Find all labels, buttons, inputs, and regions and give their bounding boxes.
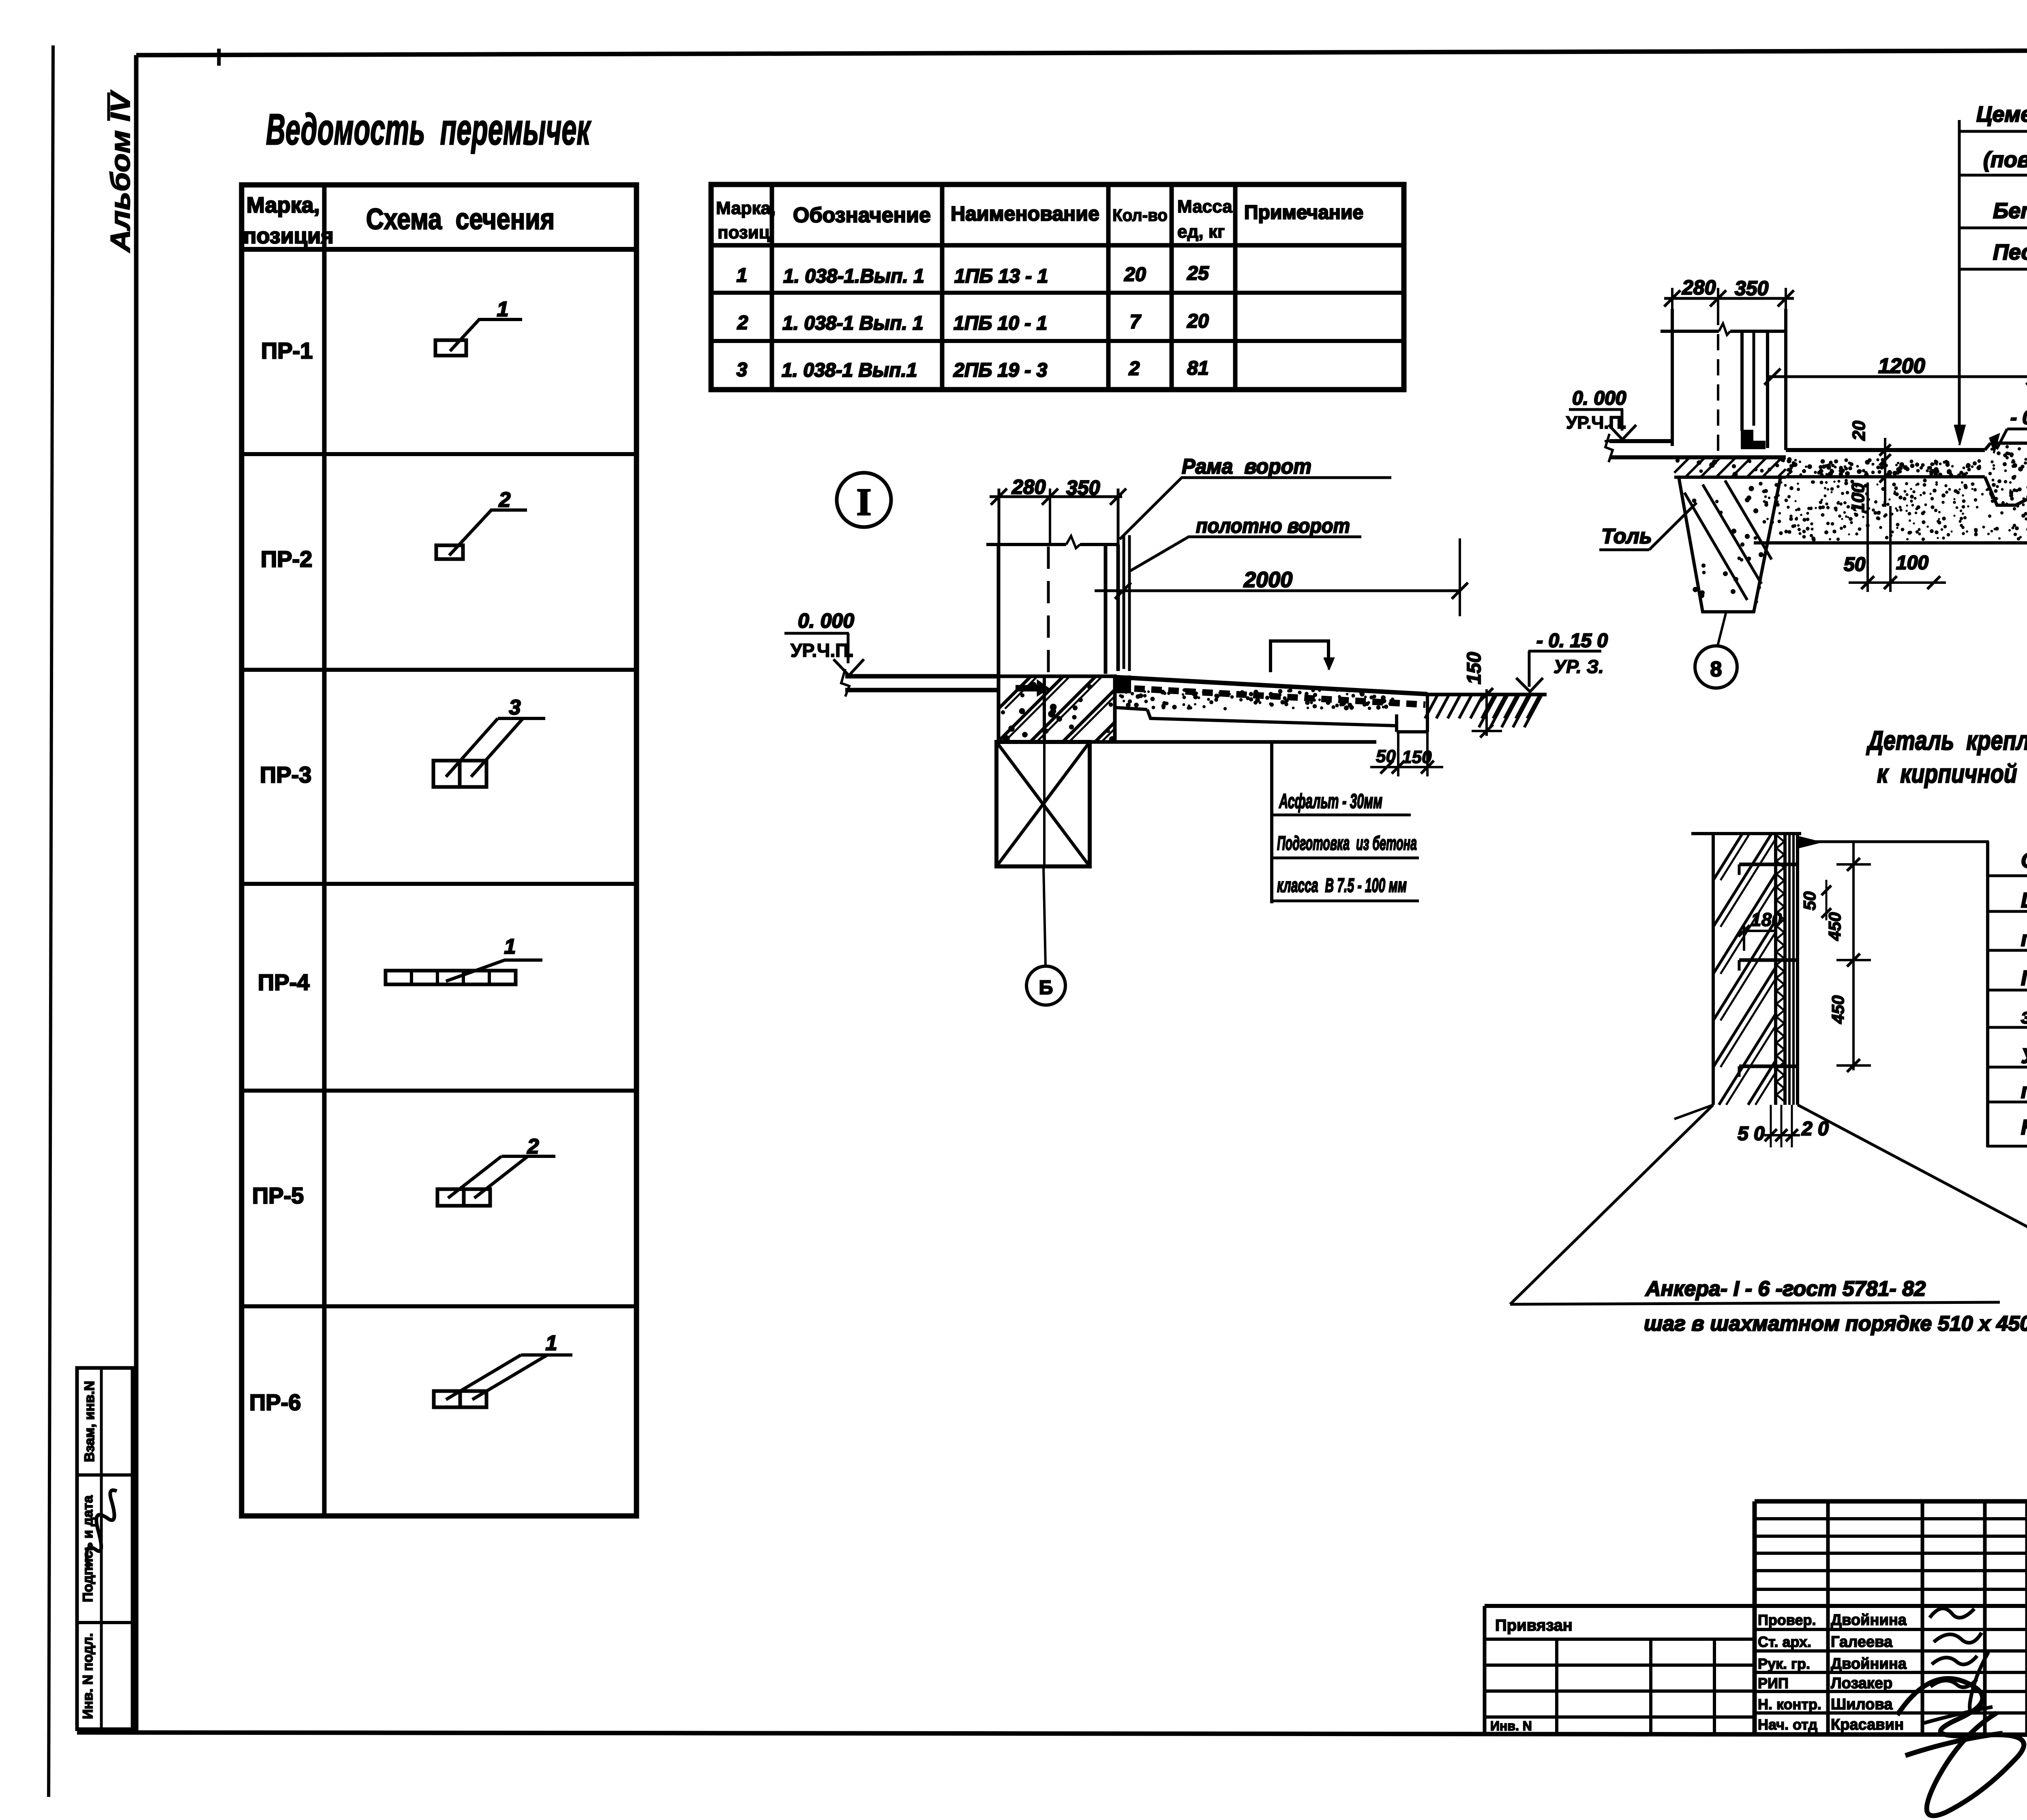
bottom-left stamp boxes <box>77 1368 133 1729</box>
svg-text:Пароизоляция - обмазка битум: Пароизоляция - обмазка битумом <box>2021 967 2027 990</box>
svg-text:- 0. 02 0: - 0. 02 0 <box>2010 407 2027 429</box>
brick wall with hatch (detail) <box>1674 834 1801 1119</box>
long leader from notes to slab <box>1954 120 1965 445</box>
svg-text:Н. контр.: Н. контр. <box>1758 1696 1821 1713</box>
trapezoid foundation (right section) <box>1679 477 1781 612</box>
svg-text:2: 2 <box>1129 358 1140 379</box>
svg-text:Асфальт - 30мм: Асфальт - 30мм <box>1279 790 1382 812</box>
vertical dim 150 (central right) <box>1463 652 1502 737</box>
svg-text:1: 1 <box>546 1331 557 1355</box>
svg-text:20: 20 <box>1187 311 1209 332</box>
signature rows labels <box>1758 1612 1907 1733</box>
sloped slab right of wall (central) <box>996 677 1427 742</box>
insulation layer strip (detail) <box>1776 834 1785 1105</box>
svg-text:по сетке - 20 мм: по сетке - 20 мм <box>2021 927 2027 951</box>
svg-text:Окраска поливинилацетатная ВА: Окраска поливинилацетатная ВА - 27 А <box>2021 849 2027 872</box>
dim 2000 (central) <box>1095 538 1468 616</box>
svg-text:Двойнина: Двойнина <box>1831 1655 1907 1672</box>
svg-text:0. 000: 0. 000 <box>798 609 854 632</box>
dim 180 (detail) <box>1738 909 1782 951</box>
leader to metal mesh note (detail) <box>1798 1105 2027 1281</box>
svg-text:Рук. гр.: Рук. гр. <box>1758 1655 1810 1672</box>
dim 1200 (right section) <box>1764 354 2027 387</box>
svg-text:позиц.: позиц. <box>718 223 775 242</box>
svg-text:Бетон класса В 7.5 - 100 м: Бетон класса В 7.5 - 100 мм <box>1993 199 2027 223</box>
callout staple above slab (central) <box>1271 641 1333 672</box>
svg-text:1. 038-1.Вып. 1: 1. 038-1.Вып. 1 <box>783 266 924 287</box>
floor double line (right section) <box>1605 434 1786 462</box>
notes list (detail), 8 rows <box>1988 842 2027 1147</box>
elevation 0.000 UR.Ch.P (central) <box>784 609 864 675</box>
plaster and mesh layers (detail) <box>1789 834 1798 1105</box>
svg-text:Б: Б <box>1039 977 1053 999</box>
svg-text:81: 81 <box>1187 358 1208 379</box>
axis line down to node B <box>1043 742 1046 966</box>
svg-text:1. 038-1 Вып. 1: 1. 038-1 Вып. 1 <box>782 313 924 334</box>
svg-text:0. 000: 0. 000 <box>1572 388 1626 409</box>
svg-text:25: 25 <box>1187 263 1209 284</box>
specification table grid <box>711 184 1404 390</box>
svg-text:Лозакер: Лозакер <box>1831 1675 1892 1692</box>
svg-text:Подготовка из бетона: Подготовка из бетона <box>1277 833 1417 854</box>
label Tol <box>1599 503 1697 550</box>
top notes with underlines (cement mortar etc.) <box>1959 102 2027 269</box>
svg-text:5 0: 5 0 <box>1738 1123 1765 1145</box>
anchors (detail) <box>1739 864 1798 1077</box>
svg-text:2: 2 <box>499 488 511 512</box>
svg-text:шаг в шахматном порядке 510 х: шаг в шахматном порядке 510 х 450(h) <box>1644 1312 2027 1336</box>
svg-text:3: 3 <box>509 696 521 719</box>
svg-text:Штукатурка сложным раствором: Штукатурка сложным раствором <box>2021 889 2027 912</box>
PR-5 section sketch <box>437 1135 555 1206</box>
svg-text:полотно ворот: полотно ворот <box>1196 514 1350 537</box>
svg-text:ПР-5: ПР-5 <box>252 1183 304 1208</box>
svg-text:класса В 7.5 - 100 мм: класса В 7.5 - 100 мм <box>1277 875 1407 896</box>
PR-1 section sketch <box>435 298 522 356</box>
svg-text:350: 350 <box>1735 277 1769 300</box>
svg-text:- 0. 15 0: - 0. 15 0 <box>1536 630 1608 652</box>
svg-text:Галеева: Галеева <box>1831 1633 1893 1651</box>
svg-text:280: 280 <box>1011 476 1046 498</box>
svg-text:I: I <box>857 480 872 523</box>
PR-3 section sketch <box>433 696 545 787</box>
lintel table headers <box>243 193 555 248</box>
PR-6 section sketch <box>434 1331 572 1407</box>
node circle 8 <box>1695 646 1737 688</box>
detail title <box>1866 725 2027 788</box>
svg-text:Утеплитель - минераловатные п: Утеплитель - минераловатные плиты <box>2021 1044 2027 1068</box>
foundation box with X (central) <box>996 742 1090 866</box>
bottom dim 50/20 (detail) <box>1738 1105 1829 1147</box>
ground line and earth hatch right of slab (central) <box>1425 695 1547 727</box>
svg-text:Шилова: Шилова <box>1831 1696 1893 1713</box>
svg-text:50: 50 <box>1800 892 1819 911</box>
wall cut top line with break (central) <box>986 536 1118 548</box>
svg-text:Рама ворот: Рама ворот <box>1182 455 1311 478</box>
svg-text:1: 1 <box>737 265 748 286</box>
svg-text:ПР-3: ПР-3 <box>260 762 311 787</box>
svg-text:ПР-6: ПР-6 <box>249 1389 301 1415</box>
svg-text:Красавин: Красавин <box>1831 1716 1904 1733</box>
concrete band with dots (right section) <box>1786 457 1985 478</box>
title block main grid <box>1485 1501 2027 1734</box>
sand bed with dots and bottom line (right section) <box>1754 478 2027 543</box>
drawing title: Vedomost peremychek <box>266 105 591 154</box>
embed arrow at floor/wall joint <box>1016 681 1048 695</box>
top reference line to notes (detail) <box>1798 836 1989 847</box>
svg-text:7: 7 <box>1130 311 1142 333</box>
bottom dims 50/100 (right section) <box>1844 482 1946 592</box>
svg-text:50: 50 <box>1376 746 1396 766</box>
svg-text:Взам, инв.N: Взам, инв.N <box>82 1381 97 1462</box>
leader to anchors note (detail) <box>1510 1105 2027 1336</box>
svg-text:ед, кг: ед, кг <box>1177 222 1225 242</box>
svg-text:2000: 2000 <box>1243 568 1292 592</box>
node marker I circle <box>837 473 891 527</box>
svg-text:100: 100 <box>1896 552 1928 574</box>
svg-text:Марка,: Марка, <box>716 198 776 218</box>
svg-text:350: 350 <box>1066 476 1100 499</box>
floor slab double line left (central) <box>841 669 999 697</box>
svg-text:позиция: позиция <box>243 224 334 248</box>
svg-text:20: 20 <box>1849 420 1869 441</box>
svg-text:450: 450 <box>1828 995 1847 1024</box>
svg-text:Марка,: Марка, <box>246 193 320 217</box>
row labels PR-1..PR-6 <box>249 338 313 1415</box>
elevation 0.000 UR.Ch.P (right section) <box>1566 388 1636 439</box>
vertical dims 20/100 (right section) <box>1848 420 1891 513</box>
svg-text:Масса: Масса <box>1177 197 1232 217</box>
svg-text:2: 2 <box>737 312 748 334</box>
svg-text:Наименование: Наименование <box>951 202 1099 225</box>
svg-text:Привязан: Привязан <box>1495 1616 1573 1634</box>
svg-text:Толь: Толь <box>1601 525 1652 548</box>
svg-text:ПР-4: ПР-4 <box>258 969 309 995</box>
svg-text:УР.Ч.П.: УР.Ч.П. <box>1566 413 1626 433</box>
svg-text:Схема сечения: Схема сечения <box>366 203 555 236</box>
svg-text:150: 150 <box>1463 652 1485 684</box>
PR-2 section sketch <box>436 488 527 559</box>
svg-text:(поверхность зажелезнить): (поверхность зажелезнить) <box>1983 148 2027 172</box>
leader -0.020 (right section) <box>1989 407 2027 453</box>
svg-text:Двойнина: Двойнина <box>1831 1612 1907 1629</box>
svg-text:1ПБ 10 - 1: 1ПБ 10 - 1 <box>954 313 1047 334</box>
dim 280/350 over wall (central) <box>990 476 1126 545</box>
svg-text:100: 100 <box>1848 483 1868 513</box>
svg-text:ПР-1: ПР-1 <box>261 338 313 363</box>
svg-text:50: 50 <box>1844 554 1866 575</box>
svg-text:Анкера- I - 6 -гост 5781- 82: Анкера- I - 6 -гост 5781- 82 <box>1645 1277 1926 1301</box>
svg-text:2 0: 2 0 <box>1801 1118 1829 1140</box>
brick hatch band under wall (right section) <box>1674 457 1786 477</box>
svg-text:за 1 раз: за 1 раз <box>2021 1005 2027 1028</box>
svg-text:3: 3 <box>737 359 748 381</box>
wall edges and gate frame verticals (central) <box>999 535 1131 693</box>
svg-text:450: 450 <box>1825 912 1844 941</box>
svg-text:Обозначение: Обозначение <box>793 204 931 227</box>
svg-text:Деталь крепления утеплителя: Деталь крепления утеплителя <box>1866 725 2027 755</box>
hatched wall block below floor (central) <box>999 676 1116 743</box>
svg-text:280: 280 <box>1682 276 1716 299</box>
wall cut line with break (right section) <box>1661 324 1786 335</box>
svg-text:РИП: РИП <box>1758 1675 1789 1691</box>
elevation -0.150 UR.Z (central) <box>1516 630 1608 692</box>
PR-4 section sketch <box>386 935 542 984</box>
node circle B <box>1026 966 1065 1005</box>
svg-text:1. 038-1 Вып.1: 1. 038-1 Вып.1 <box>782 360 917 381</box>
svg-text:Инв. N: Инв. N <box>1490 1719 1532 1733</box>
svg-text:Песок, уплотненный щебнем: Песок, уплотненный щебнем <box>1993 240 2027 264</box>
leader: polotno vorot <box>1130 514 1361 571</box>
vertical label: Album IV <box>105 90 136 253</box>
slab top line and -0.020 step (right section) <box>1786 443 2027 450</box>
svg-text:УР. З.: УР. З. <box>1553 656 1604 677</box>
svg-text:1200: 1200 <box>1878 354 1925 378</box>
svg-text:УР.Ч.П.: УР.Ч.П. <box>791 640 854 661</box>
signature scribbles <box>1897 1608 2024 1816</box>
svg-text:к кирпичной стене: к кирпичной стене <box>1877 759 2027 788</box>
vertical dim chain 50/450/450 (detail) <box>1800 842 1871 1072</box>
svg-text:Цементно- песчаный раствор м: Цементно- песчаный раствор м 200 - 20 мм <box>1976 102 2027 126</box>
dim 280/350 (right section) <box>1664 276 1794 309</box>
svg-text:Кол-во: Кол-во <box>1112 206 1168 225</box>
svg-text:Кирпичная стена: Кирпичная стена <box>2021 1116 2027 1139</box>
svg-text:Провер.: Провер. <box>1758 1612 1816 1628</box>
svg-text:20: 20 <box>1124 264 1146 285</box>
svg-text:2ПБ 19 - 3: 2ПБ 19 - 3 <box>953 360 1048 381</box>
wall and gate post verticals (right section) <box>1672 309 1786 456</box>
leader: Rama vorot <box>1120 455 1391 539</box>
left attachment table <box>1485 1606 1755 1734</box>
svg-text:1: 1 <box>497 298 509 321</box>
specification rows <box>737 263 1209 381</box>
svg-text:п 125 - 1000. 500. 50 го: п 125 - 1000. 500. 50 гост 9573 - 82 <box>2021 1079 2027 1103</box>
lintel schedule table grid <box>242 185 636 1516</box>
svg-text:Примечание: Примечание <box>1244 202 1363 223</box>
asphalt notes block (central) <box>1272 742 1419 903</box>
svg-text:1ПБ 13 - 1: 1ПБ 13 - 1 <box>954 266 1048 287</box>
svg-text:Ведомость перемычек: Ведомость перемычек <box>266 105 591 154</box>
dims 50/150 below slab end (central) <box>1370 732 1443 776</box>
svg-text:Нач. отд: Нач. отд <box>1758 1716 1817 1733</box>
axis to node 8 <box>1718 612 1726 645</box>
specification table headers <box>716 197 1363 242</box>
svg-text:Ст. арх.: Ст. арх. <box>1758 1633 1811 1650</box>
svg-text:180: 180 <box>1751 909 1782 930</box>
svg-text:Инв. N подл.: Инв. N подл. <box>80 1633 96 1719</box>
svg-text:ПР-2: ПР-2 <box>261 546 312 572</box>
svg-text:1: 1 <box>504 935 516 958</box>
right end ramp block (right section) <box>1985 443 2027 505</box>
svg-text:2: 2 <box>527 1135 539 1158</box>
svg-text:8: 8 <box>1710 658 1722 681</box>
sheet outer left edge line <box>49 45 53 1797</box>
